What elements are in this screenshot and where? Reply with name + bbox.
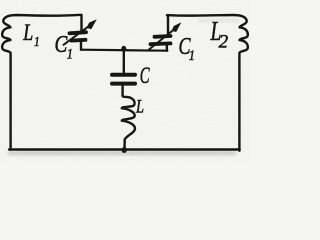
svg-text:C: C	[55, 31, 68, 58]
label C middle	[140, 64, 151, 89]
wire middle horizontal	[81, 50, 167, 51]
scan smudge under top-right wire	[198, 19, 240, 22]
capacitor C1 right lower wire	[166, 45, 168, 50]
arrowhead right C1	[172, 22, 182, 32]
svg-text:2: 2	[219, 32, 229, 53]
wire bottom	[9, 148, 239, 151]
svg-text:1: 1	[34, 34, 40, 49]
label L2	[210, 17, 222, 47]
capacitor C1 left arrow	[64, 25, 91, 45]
inductor L2 coil with top-right wire	[167, 15, 248, 151]
node junction bottom	[122, 147, 127, 153]
scan smudge under bottom wire	[8, 151, 236, 155]
label L middle	[135, 96, 144, 117]
capacitor C1 right arrow	[149, 28, 177, 50]
paper background	[0, 0, 250, 161]
capacitor C1 left plates	[70, 32, 87, 33]
svg-text:1: 1	[189, 47, 195, 63]
svg-text:L: L	[135, 96, 144, 117]
svg-text:1: 1	[67, 46, 73, 62]
node junction top	[121, 46, 126, 52]
capacitor C1 right plates	[155, 34, 171, 39]
capacitor C1 left: top wire drop	[80, 15, 82, 31]
svg-text:L: L	[22, 21, 33, 46]
arrowhead left C1	[87, 19, 97, 29]
capacitor C wire from junction	[123, 50, 125, 73]
label C1 left	[55, 31, 68, 58]
svg-text:C: C	[140, 64, 151, 89]
capacitor C1 left lower wire	[80, 42, 82, 50]
label L1	[22, 21, 33, 46]
capacitor C plates	[112, 73, 135, 77]
inductor L coil	[122, 86, 135, 150]
capacitor C1 right: top wire drop	[167, 15, 169, 35]
label C1 right	[179, 33, 192, 60]
inductor L1 coil with top-left wire	[2, 15, 81, 150]
